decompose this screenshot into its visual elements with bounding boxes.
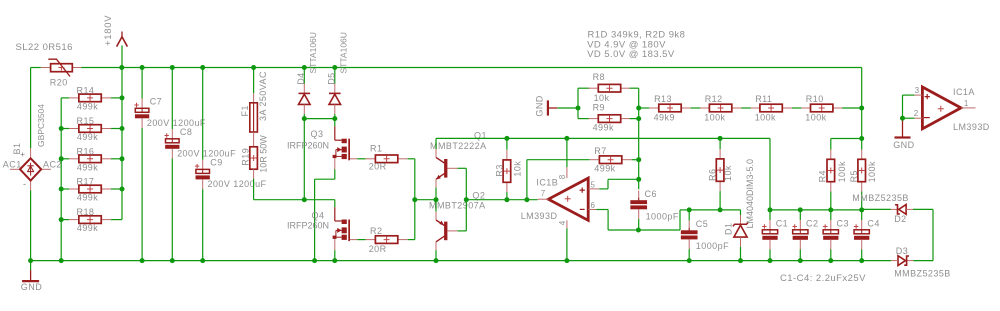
- wire R19 output down: [253, 179, 255, 200]
- svg-text:7: 7: [541, 189, 546, 198]
- op-amp IC1B: [538, 167, 600, 228]
- svg-text:IC1B: IC1B: [536, 177, 558, 187]
- wire C9 bottom feed: [202, 189, 204, 261]
- svg-text:VD 5.0V @ 183.5V: VD 5.0V @ 183.5V: [587, 49, 675, 60]
- svg-text:20R: 20R: [369, 244, 387, 254]
- wire rail right corner drop: [861, 68, 863, 109]
- wire R8 right link: [630, 87, 639, 89]
- svg-text:R1: R1: [370, 144, 382, 154]
- svg-text:MMBZ5235B: MMBZ5235B: [852, 193, 909, 203]
- resistor R18: [69, 216, 111, 224]
- wire bridge positive drop: [30, 68, 32, 149]
- wire pin6 jog right: [596, 209, 608, 211]
- junction D5 node: [332, 116, 337, 121]
- resistor R8: [589, 84, 631, 92]
- svg-text:2: 2: [914, 109, 919, 118]
- svg-text:200V 1200uF: 200V 1200uF: [208, 179, 267, 189]
- wire R19 output across: [254, 199, 335, 201]
- svg-text:R4: R4: [818, 170, 828, 182]
- junction top rail +180V: [119, 65, 124, 70]
- svg-text:200V 1200uF: 200V 1200uF: [147, 118, 206, 128]
- junction VCC R6: [718, 136, 723, 141]
- resistor R15: [69, 125, 111, 133]
- svg-text:R20: R20: [50, 78, 68, 88]
- wire base trunk bottom: [458, 230, 467, 232]
- junction C6 bottom: [636, 228, 641, 233]
- wire R3 top feed: [506, 138, 508, 149]
- wire pin5 jog up: [607, 179, 609, 189]
- junction node A: [302, 197, 307, 202]
- resistor R17: [69, 185, 111, 193]
- junction VCC pin8: [564, 136, 569, 141]
- svg-text:5: 5: [591, 180, 596, 189]
- svg-text:R13: R13: [654, 94, 672, 104]
- svg-text:IC1A: IC1A: [953, 87, 975, 97]
- capacitor C5: [681, 221, 698, 250]
- junction ref C3: [828, 207, 833, 212]
- wire feedback across: [527, 159, 590, 161]
- resistor R11: [750, 104, 792, 112]
- junction ref C4: [859, 207, 864, 212]
- wire D5 node to Q3 drain: [334, 119, 336, 127]
- transistor Q2: [436, 212, 458, 251]
- wire bottom rail after D3: [913, 260, 933, 262]
- zener diode D3: [891, 256, 913, 266]
- junction bottom rail Q4 source: [332, 258, 337, 263]
- wire VCC rail: [436, 137, 770, 139]
- wire Q3 gate to R1: [357, 158, 365, 160]
- junction bottom rail C4: [859, 258, 864, 263]
- capacitor C7: [134, 99, 149, 128]
- svg-text:R19: R19: [240, 148, 250, 166]
- svg-text:499k: 499k: [593, 123, 614, 133]
- svg-text:LM393D: LM393D: [521, 211, 558, 221]
- wire R9 right link: [630, 118, 639, 120]
- transistor Q4: [333, 207, 358, 250]
- resistor R16: [69, 155, 111, 163]
- ground GND IC1A: [895, 118, 911, 137]
- wire C2 bottom feed: [799, 250, 801, 261]
- wire pin5 to trunk: [608, 178, 639, 180]
- junction R16 left: [59, 156, 64, 161]
- svg-text:D3: D3: [896, 246, 908, 256]
- svg-text:100k: 100k: [704, 112, 725, 122]
- junction bottom rail C7: [140, 258, 145, 263]
- junction bottom rail D1: [738, 258, 743, 263]
- junction bottom rail bleeder: [59, 258, 64, 263]
- wire base trunk: [465, 168, 467, 231]
- svg-text:MMBT2222A: MMBT2222A: [430, 141, 487, 151]
- junction pin5 node: [636, 177, 641, 182]
- wire IC1A tie drop: [902, 95, 904, 118]
- svg-text:C3: C3: [837, 218, 849, 228]
- wire divider trunk: [638, 88, 640, 189]
- svg-text:C6: C6: [645, 189, 657, 199]
- capacitor C8: [165, 129, 180, 158]
- junction bottom rail C5: [687, 258, 692, 263]
- wire R6 top feed: [719, 138, 721, 149]
- wire R8R9 left trunk: [577, 88, 579, 118]
- wire C4 top feed: [861, 210, 863, 220]
- junction drive trunk: [412, 197, 417, 202]
- wire R15 left link: [61, 128, 69, 130]
- wire output feedback riser: [526, 160, 528, 200]
- wire Q3 source jog left: [315, 178, 335, 180]
- wire R18 right link: [111, 219, 122, 221]
- junction divider mid: [859, 136, 864, 141]
- wire C7 top feed: [141, 68, 143, 99]
- svg-text:+: +: [20, 150, 25, 159]
- svg-text:499k: 499k: [77, 101, 98, 111]
- wire ref to D2: [862, 208, 891, 210]
- wire C6 bottom feed: [638, 219, 640, 230]
- svg-text:MMBT2907A: MMBT2907A: [429, 201, 486, 211]
- svg-text:-: -: [23, 179, 26, 189]
- svg-text:20R: 20R: [369, 161, 387, 171]
- svg-text:D4: D4: [296, 72, 306, 84]
- transistor Q3: [333, 126, 358, 169]
- svg-text:C5: C5: [696, 219, 708, 229]
- capacitor C2: [793, 220, 808, 249]
- wire R8 left link: [578, 87, 589, 89]
- svg-text:R12: R12: [705, 94, 723, 104]
- svg-text:D2: D2: [894, 214, 906, 224]
- svg-text:499k: 499k: [77, 223, 98, 233]
- wire R1 to trunk: [408, 158, 415, 160]
- wire Q1 collector up: [435, 138, 437, 149]
- resistor R13: [649, 104, 691, 112]
- junction top rail C7: [140, 65, 145, 70]
- wire R9 left link: [578, 118, 589, 120]
- svg-text:100k: 100k: [805, 112, 826, 122]
- svg-text:C9: C9: [210, 157, 222, 167]
- junction feedback tap: [524, 197, 529, 202]
- wire D5 bottom feed: [334, 114, 336, 119]
- junction bottom rail C2: [798, 258, 803, 263]
- junction R3 bottom: [504, 197, 509, 202]
- svg-text:MMBZ5235B: MMBZ5235B: [894, 269, 951, 279]
- wire bottom GND rail: [31, 260, 892, 262]
- wire C5 top feed: [688, 210, 690, 221]
- svg-text:49k9: 49k9: [654, 112, 675, 122]
- svg-text:R7: R7: [594, 146, 606, 156]
- capacitor C1: [762, 220, 777, 249]
- junction bottom rail C3: [828, 258, 833, 263]
- svg-text:499k: 499k: [77, 132, 98, 142]
- wire zener return vertical: [932, 209, 934, 260]
- wire pin4 to GND rail: [566, 228, 568, 260]
- junction top rail C8: [170, 65, 175, 70]
- svg-text:10R 50W: 10R 50W: [258, 135, 268, 173]
- junction bases: [464, 197, 469, 202]
- wire D1 to GND rail: [740, 247, 742, 261]
- resistor R2: [366, 236, 408, 244]
- wire D2 to return: [913, 208, 933, 210]
- svg-text:C7: C7: [150, 96, 162, 106]
- wire C4 bottom feed: [861, 250, 863, 261]
- svg-text:3A 250VAC: 3A 250VAC: [258, 71, 268, 121]
- wire D4 node to R19 node: [303, 119, 305, 200]
- junction divider top: [859, 106, 864, 111]
- wire pin6 jog up: [679, 210, 681, 230]
- thermistor R20: [41, 59, 81, 76]
- wire pin8 to VCC: [566, 138, 568, 167]
- svg-text:C4: C4: [867, 218, 879, 228]
- junction divider tap R13: [636, 106, 641, 111]
- svg-text:R2: R2: [370, 226, 382, 236]
- svg-text:C1: C1: [776, 218, 788, 228]
- wire C3 bottom feed: [830, 250, 832, 261]
- svg-text:1: 1: [964, 99, 969, 108]
- junction top rail D4: [302, 65, 307, 70]
- capacitor C6: [630, 191, 647, 220]
- wire gate drive trunk: [414, 159, 416, 240]
- svg-text:STTA106U: STTA106U: [339, 32, 349, 73]
- wire pin6 jog down: [607, 210, 609, 231]
- svg-text:AC1: AC1: [3, 159, 22, 169]
- junction IC1A inputs: [900, 116, 905, 121]
- wire base trunk top: [458, 167, 467, 169]
- svg-text:D5: D5: [327, 72, 337, 84]
- junction emitters: [434, 197, 439, 202]
- svg-text:Q2: Q2: [472, 190, 485, 200]
- svg-text:IRFP260N: IRFP260N: [287, 221, 329, 231]
- svg-text:1000pF: 1000pF: [696, 241, 729, 251]
- svg-text:499k: 499k: [77, 193, 98, 203]
- wire drive node link: [415, 199, 436, 201]
- svg-text:R6: R6: [708, 169, 718, 181]
- wire R13-R12 link: [691, 107, 701, 109]
- junction ref R6: [718, 207, 723, 212]
- svg-text:R15: R15: [77, 116, 95, 126]
- junction R14 right: [120, 95, 125, 100]
- capacitor C4: [854, 220, 869, 249]
- wire Q4 drain feed: [334, 200, 336, 208]
- svg-text:F1: F1: [240, 105, 250, 116]
- svg-text:C1-C4: 2.2uFx25V: C1-C4: 2.2uFx25V: [780, 273, 866, 284]
- wire Q4 source to GND rail: [334, 250, 336, 260]
- svg-text:8: 8: [558, 174, 567, 179]
- wire D4 bottom feed: [303, 114, 305, 119]
- resistor R10: [801, 104, 843, 112]
- svg-text:R8: R8: [593, 72, 605, 82]
- wire divider tap drop: [861, 108, 863, 150]
- diode D1: [733, 215, 748, 247]
- svg-text:R9: R9: [593, 103, 605, 113]
- junction ref C5: [687, 207, 692, 212]
- svg-text:100k: 100k: [867, 161, 877, 182]
- junction ref C1: [768, 207, 773, 212]
- junction R16 right: [120, 156, 125, 161]
- svg-text:GND: GND: [893, 140, 914, 150]
- wire F1-R19 link: [253, 132, 255, 147]
- svg-text:GND: GND: [21, 282, 42, 292]
- wire bleeder right column: [121, 68, 123, 220]
- svg-text:R17: R17: [77, 177, 95, 187]
- wire bleeder left column: [60, 98, 62, 261]
- wire C8 top feed: [171, 68, 173, 130]
- junction bottom rail Q2 collector: [434, 258, 439, 263]
- junction R18 left: [59, 217, 64, 222]
- resistor R19: [250, 147, 258, 179]
- junction bottom rail C9: [200, 258, 205, 263]
- wire Q2 collector to GND rail: [435, 250, 437, 260]
- svg-text:6: 6: [591, 201, 596, 210]
- svg-text:LM393D: LM393D: [953, 122, 990, 132]
- wire R15 right link: [111, 128, 122, 130]
- resistor R6: [716, 149, 724, 191]
- junction bottom rail Q3 source: [312, 258, 317, 263]
- capacitor C3: [823, 220, 838, 249]
- svg-text:100k: 100k: [837, 161, 847, 182]
- wire chain left link: [639, 107, 649, 109]
- wire bridge negative drop: [30, 191, 32, 261]
- svg-text:C8: C8: [180, 127, 192, 137]
- op-amp IC1A: [914, 87, 975, 129]
- wire R4 bottom feed: [830, 192, 832, 210]
- svg-text:4: 4: [558, 220, 567, 225]
- wire C8 bottom feed: [171, 159, 173, 261]
- svg-text:LM4040DIM3-5.0: LM4040DIM3-5.0: [745, 159, 755, 229]
- resistor R5: [858, 150, 866, 192]
- wire R4 jog: [831, 138, 862, 140]
- junction top rail F1: [251, 65, 256, 70]
- wire Q3 source jog down: [334, 169, 336, 179]
- svg-text:R5: R5: [849, 170, 859, 182]
- wire C2 top feed: [799, 210, 801, 220]
- wire R2 to trunk: [408, 239, 415, 241]
- svg-text:Q4: Q4: [312, 210, 325, 220]
- svg-text:Q1: Q1: [474, 131, 487, 141]
- wire C1 bottom feed: [769, 250, 771, 261]
- svg-text:1000pF: 1000pF: [646, 212, 679, 222]
- wire R17 left link: [61, 188, 69, 190]
- wire D4 top feed: [303, 68, 305, 84]
- wire VCC drop to C1 node: [769, 138, 771, 210]
- svg-text:GND: GND: [534, 95, 544, 116]
- wire left rail segment to R20: [31, 67, 41, 69]
- wire R18 left link: [61, 219, 69, 221]
- svg-text:AC2: AC2: [43, 159, 62, 169]
- ground GND left: [22, 261, 39, 282]
- junction R9 right: [636, 116, 641, 121]
- resistor R7: [590, 156, 632, 164]
- wire D4-D5 node link: [304, 118, 335, 120]
- svg-text:STTA106U: STTA106U: [308, 32, 318, 73]
- svg-text:200V 1200uF: 200V 1200uF: [177, 149, 236, 159]
- junction R7 right: [636, 157, 641, 162]
- capacitor C9: [195, 160, 210, 189]
- zener diode D2: [891, 205, 913, 215]
- bridge rectifier B1: [10, 148, 51, 190]
- wire R16 right link: [111, 158, 122, 160]
- junction R15 left: [59, 126, 64, 131]
- resistor R9: [589, 115, 631, 123]
- svg-text:10k: 10k: [512, 161, 522, 177]
- resistor R12: [700, 104, 742, 112]
- svg-text:499k: 499k: [77, 162, 98, 172]
- wire R3 bottom feed: [506, 192, 508, 200]
- wire R17 right link: [111, 188, 122, 190]
- svg-text:499k: 499k: [594, 164, 615, 174]
- svg-text:R14: R14: [77, 86, 95, 96]
- wire R6 bottom feed: [719, 191, 721, 210]
- svg-text:Q3: Q3: [311, 129, 324, 139]
- wire pin5 jog right: [599, 188, 608, 190]
- wire R5 bottom feed: [861, 192, 863, 210]
- wire Q2 emitter up: [435, 200, 437, 212]
- diode D4: [299, 84, 311, 114]
- wire base node to comparator: [466, 199, 537, 201]
- junction bottom rail bridge: [28, 258, 33, 263]
- svg-text:R3: R3: [495, 164, 505, 176]
- svg-text:GBPC3504: GBPC3504: [36, 104, 46, 147]
- resistor R3: [503, 150, 511, 192]
- wire Q1 emitter down: [435, 188, 437, 200]
- svg-text:R10: R10: [806, 94, 824, 104]
- junction bottom rail C1: [768, 258, 773, 263]
- wire D1 drop: [740, 210, 742, 215]
- wire D5 top feed: [334, 68, 336, 84]
- junction R15 right: [120, 126, 125, 131]
- junction top rail C9: [200, 65, 205, 70]
- wire R4 drop: [830, 139, 832, 150]
- wire R10 right link: [842, 107, 861, 109]
- ground GND mid: [548, 100, 578, 115]
- wire Q3 source to GND rail: [314, 179, 316, 260]
- fuse F1: [250, 93, 258, 132]
- diode D5: [329, 84, 341, 114]
- wire Q4 gate to R2: [357, 239, 365, 241]
- wire R7 right link: [632, 159, 639, 161]
- svg-text:R18: R18: [77, 207, 95, 217]
- wire C1 top feed: [769, 210, 771, 220]
- wire pin6 line across: [608, 229, 680, 231]
- wire +180V top rail: [81, 67, 862, 69]
- wire R11-R10 link: [792, 107, 801, 109]
- junction bottom rail pin4: [564, 258, 569, 263]
- junction ref C2: [798, 207, 803, 212]
- svg-text:3: 3: [915, 86, 920, 95]
- supply +180V: [117, 32, 128, 68]
- wire R16 left link: [61, 158, 69, 160]
- junction top rail D5: [332, 65, 337, 70]
- wire IC1A input tie 2: [903, 117, 915, 119]
- junction R17 right: [120, 187, 125, 192]
- wire C9 top feed: [202, 68, 204, 160]
- wire ref node link: [689, 209, 740, 211]
- wire pin6 to ref node: [680, 209, 689, 211]
- wire F1 feed: [253, 68, 255, 94]
- wire R14 right link: [111, 97, 122, 99]
- wire ref node right: [770, 209, 862, 211]
- svg-text:100k: 100k: [755, 112, 776, 122]
- wire C7 bottom feed: [141, 128, 143, 261]
- svg-text:10k: 10k: [723, 165, 733, 181]
- svg-text:C2: C2: [806, 218, 818, 228]
- svg-text:+180V: +180V: [103, 15, 114, 46]
- junction D4 node: [302, 116, 307, 121]
- svg-text:R11: R11: [755, 94, 772, 104]
- wire R14 left link: [61, 97, 69, 99]
- resistor R1: [366, 155, 408, 163]
- svg-text:SL22 0R516: SL22 0R516: [16, 42, 73, 53]
- resistor R4: [827, 150, 835, 192]
- svg-text:IRFP260N: IRFP260N: [287, 140, 329, 150]
- wire R12-R11 link: [741, 107, 751, 109]
- wire C5 bottom feed: [688, 249, 690, 261]
- wire IC1A input tie: [903, 94, 915, 96]
